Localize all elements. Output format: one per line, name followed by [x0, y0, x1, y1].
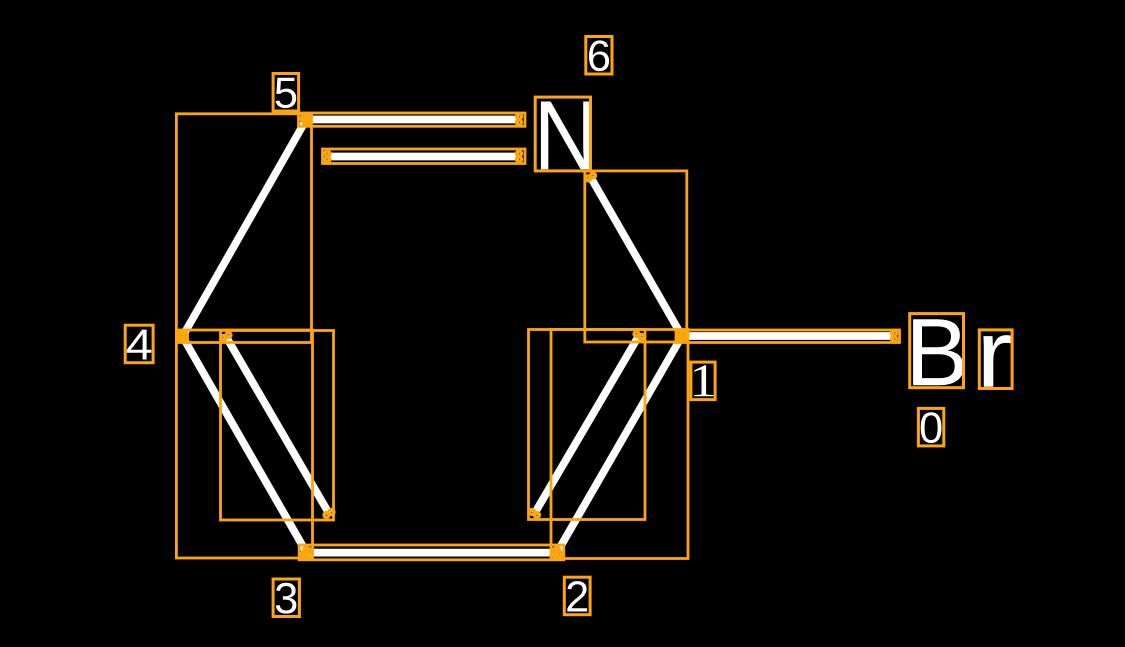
bond 4-5	[183, 120, 307, 337]
atom index label 6 box	[586, 37, 612, 75]
endpoint dots of bond 2-3	[304, 553, 309, 558]
bond 5=6 inner line	[328, 153, 520, 161]
atom index label 6	[589, 40, 609, 71]
atom index label 2	[567, 581, 587, 611]
atom label Br letter B (atom 0)	[913, 319, 964, 385]
atom index label 3 box	[273, 579, 299, 617]
bond 1=2 main line	[557, 336, 682, 553]
atom index label 0 box	[918, 408, 943, 446]
atom index label 4	[127, 330, 152, 360]
endpoint dots of bond 5=6 inner line	[325, 157, 330, 162]
endpoint dots of bond 1=2 main line	[557, 552, 562, 557]
bond 2-3 box	[299, 545, 564, 560]
endpoint dots of bond 3=4 inner line	[221, 336, 226, 341]
atom label Br letter r (atom 0)	[983, 335, 1010, 387]
atom label N (ring nitrogen, atom 6)	[541, 102, 591, 170]
bond 6-1 box	[585, 171, 687, 342]
atom index label 3	[276, 583, 297, 614]
endpoint dots of bond 6-1	[586, 176, 591, 181]
bond 4-5 box	[176, 114, 311, 343]
atom index label 5 box	[273, 74, 299, 112]
atom N label box	[535, 97, 590, 171]
bond 1-0	[682, 332, 894, 340]
bond 6-1	[591, 177, 683, 336]
bond 1=2 main line box	[551, 330, 688, 559]
bond 5=6 main line	[306, 116, 519, 124]
endpoint dots of bond 5=6 main line	[304, 120, 309, 125]
atom Br 'B' label box	[910, 314, 964, 388]
bond 1=2 inner line	[535, 336, 640, 514]
atom index label 1	[694, 365, 713, 396]
endpoint dots of bond 3=4 main line	[178, 335, 183, 340]
atom Br 'r' label box	[979, 330, 1012, 389]
endpoint dots of bond 4-5	[301, 116, 306, 121]
bond 3=4 inner line	[226, 337, 329, 514]
atom index label 4 box	[125, 325, 153, 363]
endpoint dots of bond 1=2 inner line	[535, 513, 540, 518]
endpoint dots of bond 1-0	[680, 336, 685, 341]
bond 3=4 inner line box	[221, 331, 334, 521]
bond 3=4 main line	[183, 337, 307, 553]
atom index label 5	[276, 78, 297, 108]
atom index label 0	[921, 412, 942, 443]
bond 3=4 main line box	[176, 330, 312, 558]
atom index label 2 box	[564, 577, 590, 615]
bond 1-0 box	[676, 330, 900, 343]
bond 5=6 inner line box	[323, 149, 526, 164]
bond 1=2 inner line box	[529, 330, 646, 520]
bond 2-3	[307, 549, 558, 557]
atom index label 1 box	[691, 362, 715, 400]
bond 5=6 main line box	[299, 113, 526, 126]
